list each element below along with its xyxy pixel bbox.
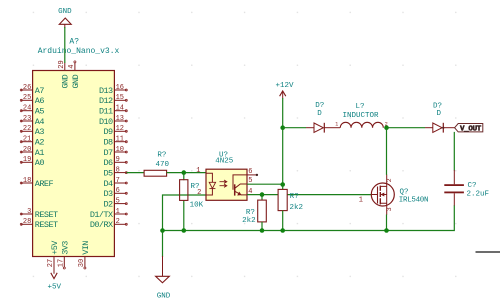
pin 28 (RESET) left stub [20, 218, 58, 230]
wire V_OUT node down to C? [453, 132, 455, 171]
resistor R? 2k2 (right, hides gate wire) [278, 184, 303, 212]
pin 11 (D8) right stub [103, 136, 127, 148]
svg-text:4: 4 [68, 64, 76, 68]
svg-text:AREF: AREF [35, 179, 54, 189]
junction L? / drain [384, 125, 389, 130]
wire drain up to inductor junction [386, 128, 388, 175]
wire inductor to D2 anode [387, 127, 426, 129]
wire +12V down to rail [282, 98, 284, 128]
pin 20 (A1) left stub [20, 146, 44, 158]
pin 2 (D0/RX) right stub [90, 218, 127, 230]
capacitor C? 2.2uF [444, 170, 489, 206]
junction source / ground rail [384, 228, 389, 233]
pin 25 (A6) left stub [20, 94, 44, 106]
svg-text:R?: R? [157, 152, 166, 160]
svg-text:RESET: RESET [35, 210, 58, 220]
svg-text:1: 1 [196, 167, 200, 175]
svg-text:D5: D5 [103, 169, 113, 179]
svg-text:26: 26 [23, 84, 31, 92]
svg-text:D11: D11 [99, 107, 113, 117]
pin 27 (+5V) bottom stub [47, 240, 60, 268]
pin 9 (D6) right stub [103, 156, 127, 168]
svg-text:18: 18 [23, 177, 31, 185]
svg-text:6: 6 [116, 187, 120, 195]
svg-text:C?: C? [468, 182, 477, 190]
svg-text:10: 10 [116, 146, 124, 154]
pin 3 (RESET) left stub [20, 208, 58, 220]
svg-text:2: 2 [386, 178, 393, 182]
power symbol GND (top, rotated) [58, 8, 72, 28]
svg-text:D9: D9 [103, 127, 113, 137]
svg-text:D: D [317, 110, 322, 118]
wire source down to ground rail [386, 215, 388, 231]
svg-text:17: 17 [58, 259, 66, 267]
svg-text:D13: D13 [99, 86, 113, 96]
svg-text:8: 8 [116, 166, 120, 174]
ground GND (bottom) [156, 256, 171, 300]
svg-text:2k2: 2k2 [290, 204, 304, 212]
wire rail down to GND symbol [162, 231, 164, 258]
svg-text:A0: A0 [35, 158, 45, 168]
svg-text:D12: D12 [99, 96, 113, 106]
pin 14 (D11) right stub [99, 105, 127, 117]
svg-text:A7: A7 [35, 86, 45, 96]
pin 29 (GND) top stub [58, 60, 71, 88]
junction GND rail / left 2k2 [260, 228, 265, 233]
svg-text:+12V: +12V [275, 82, 294, 90]
wire junction down to 10K [183, 173, 185, 181]
svg-text:30: 30 [78, 259, 86, 267]
pin 1 (D1/TX) right stub [90, 208, 127, 220]
svg-text:D6: D6 [103, 158, 113, 168]
pin 13 (D10) right stub [99, 115, 127, 127]
svg-text:GND: GND [58, 8, 72, 16]
wire GND-top to pin29 [64, 27, 66, 63]
svg-text:GND: GND [157, 292, 171, 300]
svg-text:D: D [436, 110, 441, 118]
pin 10 (D7) right stub [103, 146, 127, 158]
pin 16 (D13) right stub [99, 84, 127, 96]
svg-text:D10: D10 [99, 117, 113, 127]
pin 19 (A0) left stub [20, 156, 44, 168]
svg-text:14: 14 [116, 105, 124, 113]
svg-text:INDUCTOR: INDUCTOR [342, 112, 379, 120]
pin 8 (D5) right stub [103, 166, 127, 178]
svg-text:1: 1 [335, 122, 338, 128]
power symbol +12V [275, 82, 294, 99]
svg-text:+5V: +5V [47, 283, 61, 291]
svg-text:23: 23 [23, 115, 31, 123]
svg-text:6: 6 [248, 168, 252, 176]
pin 6 (D3) right stub [103, 187, 127, 199]
wire D5 to R470 [127, 172, 145, 174]
svg-text:2.2uF: 2.2uF [467, 190, 490, 198]
wire opto pin5 to +12V node [247, 183, 283, 185]
inductor L? [335, 103, 388, 128]
pin 4 (GND) top stub [68, 61, 81, 89]
pin 12 (D9) right stub [103, 125, 127, 137]
svg-text:20: 20 [23, 146, 31, 154]
svg-text:D?: D? [315, 102, 324, 110]
svg-text:1: 1 [116, 208, 120, 216]
wire junction down to left 2k2 [261, 195, 263, 201]
pin 18 (AREF) left stub [20, 177, 53, 189]
svg-text:2k2: 2k2 [242, 217, 256, 225]
junction opto pin4 / R-2k2 left [260, 192, 265, 197]
pin 17 (3V3) bottom stub [58, 241, 71, 269]
svg-text:A?: A? [69, 38, 79, 47]
op-amp U? 4N25 optocoupler body [196, 151, 258, 200]
svg-text:22: 22 [23, 125, 31, 133]
svg-text:2: 2 [116, 218, 120, 226]
svg-text:A6: A6 [35, 96, 45, 106]
svg-text:L?: L? [355, 103, 364, 111]
svg-text:1: 1 [359, 196, 363, 204]
wire opto pin4 to MOSFET gate [247, 194, 371, 196]
pin 26 (A7) left stub [20, 84, 44, 96]
svg-text:470: 470 [156, 161, 170, 169]
opto pin6 stub (unconnected) [247, 174, 257, 176]
svg-text:R?: R? [290, 193, 299, 201]
svg-text:2: 2 [197, 189, 201, 197]
svg-text:21: 21 [23, 136, 31, 144]
resistor R? 10K [180, 180, 204, 210]
svg-text:IRL540N: IRL540N [399, 197, 428, 205]
svg-text:VIN: VIN [81, 241, 91, 255]
svg-text:7: 7 [116, 177, 120, 185]
svg-text:3V3: 3V3 [60, 241, 70, 255]
pin 21 (A2) left stub [20, 136, 44, 148]
svg-text:4N25: 4N25 [215, 157, 234, 165]
svg-text:Q?: Q? [400, 189, 409, 197]
svg-text:GND: GND [71, 74, 81, 88]
svg-text:5: 5 [116, 197, 120, 205]
svg-text:D7: D7 [103, 148, 113, 158]
svg-text:RESET: RESET [35, 220, 58, 230]
svg-text:A5: A5 [35, 107, 45, 117]
diode D? (left) [306, 102, 340, 133]
wire opto pin2 to GND drop (crosses 10K) [163, 195, 207, 231]
svg-text:A1: A1 [35, 148, 45, 158]
junction node D5/R470/10K [182, 170, 187, 175]
sheet border line (bottom right) [476, 251, 500, 253]
svg-text:A2: A2 [35, 138, 45, 148]
svg-text:11: 11 [116, 136, 124, 144]
junction GND rail / right 2k2 [280, 228, 285, 233]
svg-text:Arduino_Nano_v3.x: Arduino_Nano_v3.x [38, 47, 120, 56]
svg-text:+5V: +5V [50, 240, 60, 255]
svg-text:V_OUT: V_OUT [460, 126, 482, 134]
svg-text:D1/TX: D1/TX [90, 210, 113, 220]
svg-text:D8: D8 [103, 138, 113, 148]
svg-text:12: 12 [116, 125, 124, 133]
svg-text:28: 28 [23, 218, 31, 226]
junction +12V / rail [280, 125, 285, 130]
svg-text:13: 13 [116, 115, 124, 123]
svg-text:16: 16 [116, 84, 124, 92]
junction GND rail / 10K [182, 228, 187, 233]
resistor R? 470 [144, 152, 169, 177]
wire right 2k2 to ground rail [282, 211, 284, 231]
power symbol +5V (bottom) [47, 257, 61, 292]
pin 30 (VIN) bottom stub [78, 241, 91, 269]
component A? Arduino_Nano_v3.x body [33, 71, 115, 257]
pin 22 (A3) left stub [20, 125, 44, 137]
svg-text:D0/RX: D0/RX [90, 220, 113, 230]
svg-text:3: 3 [386, 207, 393, 211]
opto LED (internal) [206, 173, 212, 195]
wire left 2k2 to ground rail [261, 222, 263, 231]
transistor Q? IRL540N [359, 175, 429, 215]
resistor R? 2k2 (left) [242, 200, 266, 225]
wire C? to ground rail corner [163, 206, 455, 231]
opto phototransistor (internal) [233, 175, 247, 190]
svg-text:10K: 10K [190, 201, 204, 209]
svg-text:D3: D3 [103, 189, 113, 199]
svg-text:15: 15 [116, 94, 124, 102]
global label V_OUT [455, 124, 483, 134]
wire 10K bottom to ground rail [183, 200, 185, 230]
svg-text:9: 9 [116, 156, 120, 164]
svg-text:19: 19 [23, 156, 31, 164]
svg-text:D2: D2 [103, 200, 113, 210]
opto light arrows [220, 180, 227, 183]
junction pin5 / +12V / 2k2 right [280, 182, 285, 187]
svg-text:R?: R? [246, 209, 255, 217]
wire +12V junction down to opto pin5 node [282, 128, 284, 185]
svg-text:D4: D4 [103, 179, 113, 189]
svg-text:A4: A4 [35, 117, 45, 127]
svg-text:24: 24 [23, 105, 31, 113]
pin 15 (D12) right stub [99, 94, 127, 106]
svg-text:A3: A3 [35, 127, 45, 137]
wire +12V junction to D1 anode [283, 127, 306, 129]
pin 23 (A4) left stub [20, 115, 44, 127]
svg-text:25: 25 [23, 94, 31, 102]
junction GND rail / opto-LED return [160, 228, 165, 233]
diode D? (right) [425, 103, 455, 133]
pin 24 (A5) left stub [20, 105, 44, 117]
svg-text:GND: GND [61, 74, 71, 88]
svg-text:3: 3 [27, 208, 31, 216]
wire R470 to opto pin1 [167, 172, 206, 174]
pin 5 (D2) right stub [103, 197, 127, 209]
pin 7 (D4) right stub [103, 177, 127, 189]
